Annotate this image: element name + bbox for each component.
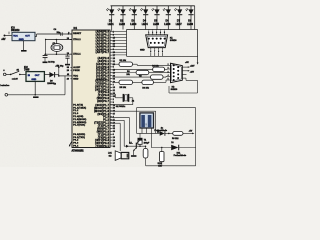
connector K1 pin dots [148, 38, 150, 40]
power terminal +5V (IC3 supply) [4, 35, 6, 37]
svg-text:(AD5)P0.5: (AD5)P0.5 [96, 45, 110, 48]
svg-text:(T1)P3.5: (T1)P3.5 [98, 95, 110, 97]
ground (supply rail) [33, 96, 39, 98]
ground (C1) [65, 64, 70, 66]
svg-text:3: 3 [156, 32, 157, 34]
ground (T1 emitter) [131, 155, 137, 157]
svg-text:100µF: 100µF [144, 142, 150, 144]
loudspeaker LS1 [115, 151, 121, 161]
svg-text:P3.0(RXD): P3.0(RXD) [73, 134, 85, 136]
svg-text:40: 40 [67, 73, 69, 76]
svg-text:C3: C3 [54, 84, 56, 86]
svg-text:8: 8 [158, 51, 159, 53]
svg-text:XTAL2: XTAL2 [73, 38, 81, 41]
diode D9 [49, 72, 54, 77]
resistor R6 [142, 80, 154, 84]
wire K2 right +12V [182, 66, 188, 68]
svg-text:AT89S8252: AT89S8252 [72, 150, 85, 153]
wire IC2 GND down [34, 81, 36, 94]
svg-text:(MISO)P1.6: (MISO)P1.6 [94, 108, 110, 110]
svg-text:13: 13 [113, 137, 115, 139]
svg-text:33: 33 [113, 78, 115, 80]
svg-text:R8 2k2: R8 2k2 [172, 138, 179, 140]
svg-text:(INT1)P3.3: (INT1)P3.3 [95, 89, 110, 91]
svg-text:P3.2: P3.2 [73, 140, 79, 142]
svg-text:1: 1 [168, 64, 169, 66]
svg-text:(A11)P2.3: (A11)P2.3 [96, 66, 109, 69]
svg-text:(A12)P2.4: (A12)P2.4 [96, 69, 110, 72]
battery terminal plus [3, 73, 6, 76]
svg-text:XTAL1: XTAL1 [73, 53, 81, 56]
capacitor C4 on reset line [60, 32, 62, 36]
svg-text:GND: GND [73, 78, 79, 80]
svg-text:(T0)P3.4: (T0)P3.4 [98, 91, 110, 94]
wire right drop to D11 line [195, 108, 197, 148]
svg-text:R6 10k: R6 10k [142, 87, 149, 89]
svg-text:(RXD)P3.0: (RXD)P3.0 [95, 81, 109, 83]
wire R6 to K2 [153, 81, 166, 83]
wire R2 to K2 [163, 76, 166, 78]
svg-text:P1.7(SCK): P1.7(SCK) [73, 125, 85, 127]
svg-text:(T2EX)P1.1: (T2EX)P1.1 [94, 123, 109, 125]
svg-text:R5 10k: R5 10k [120, 87, 127, 89]
svg-text:(INT0)P3.2: (INT0)P3.2 [95, 86, 110, 88]
crystal X2 [123, 94, 125, 102]
svg-text:(AD6)P0.6: (AD6)P0.6 [96, 48, 110, 51]
svg-text:LED4: LED4 [142, 23, 149, 26]
wire X2 top [110, 93, 116, 95]
svg-text:(AD7)P0.7: (AD7)P0.7 [96, 51, 110, 54]
svg-text:(WR)P3.6: (WR)P3.6 [97, 131, 110, 133]
svg-text:LED3: LED3 [130, 24, 137, 26]
switch S1 [10, 74, 12, 76]
connector K1 top pins [148, 30, 150, 35]
wire R1 to K2 [133, 63, 138, 65]
wire P3 pin to speaker [110, 122, 120, 124]
svg-text:batteries: batteries [0, 84, 10, 87]
svg-text:(TXD)P3.1: (TXD)P3.1 [96, 146, 110, 148]
svg-text:P1.4(SS): P1.4(SS) [73, 115, 83, 118]
svg-text:-12V: -12V [190, 72, 195, 74]
connector K2 pin dots [173, 64, 175, 66]
wire minus rail [8, 94, 65, 96]
svg-text:1: 1 [148, 32, 149, 34]
svg-text:SUBD9: SUBD9 [170, 40, 177, 42]
wire bus top (K1 box top) [127, 29, 198, 31]
connector K1 bottom pins [150, 48, 152, 57]
wire contact line [150, 133, 152, 147]
svg-text:18: 18 [67, 38, 69, 40]
svg-text:16: 16 [113, 105, 115, 107]
svg-text:2: 2 [113, 99, 114, 101]
resistor R5 [119, 80, 133, 84]
junction crystal bottom [56, 53, 58, 55]
wire P2.4 to R5 [112, 81, 119, 83]
svg-text:P1.6(MISO): P1.6(MISO) [73, 122, 86, 124]
IC1 left pin stubs [70, 33, 72, 35]
svg-text:(AD2)P0.2: (AD2)P0.2 [96, 37, 110, 40]
connector K1 DB9 shell [146, 35, 168, 48]
svg-text:P3.4: P3.4 [73, 145, 79, 148]
svg-text:6: 6 [113, 134, 114, 136]
voltage regulator IC2 7805 [26, 72, 44, 82]
svg-text:ALE/P: ALE/P [73, 66, 81, 69]
wire P2.1 to R4 [112, 68, 152, 70]
svg-text:7: 7 [113, 84, 114, 86]
wire P2.2 to R3 [112, 72, 136, 74]
wire bus to relay region [137, 107, 196, 109]
resistor R10 [160, 152, 164, 162]
svg-text:4: 4 [160, 31, 161, 34]
svg-text:9: 9 [162, 51, 163, 53]
svg-text:(WR)P3.6: (WR)P3.6 [97, 98, 110, 100]
svg-text:9: 9 [68, 33, 69, 35]
wire IC3 OUT to RESET [35, 36, 37, 38]
capacitor C2 [44, 54, 46, 55]
svg-text:39: 39 [113, 131, 115, 133]
svg-text:P1.5(MOSI): P1.5(MOSI) [73, 119, 86, 121]
connector K2 DB9 shell [171, 63, 183, 82]
svg-text:35: 35 [113, 96, 115, 98]
resistor R4 [153, 67, 165, 72]
svg-text:(A13)P2.5: (A13)P2.5 [96, 72, 110, 75]
wire XTAL1 line [44, 53, 72, 55]
svg-text:(T2)P1.0: (T2)P1.0 [98, 126, 110, 128]
svg-text:VCC: VCC [13, 36, 18, 38]
wire XTAL2 line [45, 39, 72, 41]
svg-text:OUT: OUT [35, 75, 40, 77]
svg-text:R4 10k: R4 10k [152, 64, 159, 67]
wire module right vertical [155, 111, 157, 133]
wire R7 bottom [145, 158, 147, 166]
wire P3 pin to T1 base [110, 119, 124, 121]
wire bus right vertical +5V [197, 30, 199, 64]
diode D11 [171, 145, 178, 151]
battery terminal minus [5, 94, 8, 97]
svg-text:20: 20 [113, 140, 115, 142]
svg-text:19: 19 [67, 53, 69, 55]
capacitor C1 [67, 54, 69, 56]
LED D2 [122, 6, 124, 10]
ground (C2) [43, 61, 48, 63]
wire MCU to module box top [110, 110, 156, 112]
svg-text:(T0)P3.4: (T0)P3.4 [98, 136, 110, 139]
svg-text:C2 33p: C2 33p [48, 61, 55, 63]
wire IC2 out [44, 73, 49, 75]
svg-text:27: 27 [113, 143, 115, 145]
svg-text:(A8)P2.0: (A8)P2.0 [98, 57, 110, 60]
resistor R6 [173, 132, 183, 136]
wire rail right end down [194, 6, 196, 30]
transistor T1 [135, 143, 137, 149]
IR module OP1 [140, 113, 154, 128]
svg-text:2: 2 [152, 32, 153, 34]
svg-text:9: 9 [113, 102, 114, 104]
svg-text:(AD3)P0.3: (AD3)P0.3 [96, 39, 110, 42]
svg-text:(AD0)P0.0: (AD0)P0.0 [96, 31, 110, 34]
wire XTAL2 branch down [45, 40, 47, 55]
svg-text:+5V: +5V [185, 62, 189, 64]
svg-text:P1.2: P1.2 [73, 110, 79, 112]
wire R10 top [161, 148, 163, 152]
svg-text:(INT1)P3.3: (INT1)P3.3 [95, 140, 110, 142]
svg-text:OUT: OUT [25, 36, 30, 38]
svg-text:P1.2: P1.2 [103, 120, 109, 122]
svg-text:VCC: VCC [73, 76, 78, 78]
wire VCC branch down [64, 76, 66, 95]
svg-text:(A14)P2.6: (A14)P2.6 [96, 75, 110, 78]
svg-text:(RD)P3.7: (RD)P3.7 [97, 129, 109, 131]
svg-text:25: 25 [113, 125, 115, 127]
crystal Q1 [56, 40, 58, 44]
wire K2 right -12V [182, 70, 188, 72]
svg-text:(SCK)P1.7: (SCK)P1.7 [95, 105, 109, 107]
wire P2.0 to R1 [112, 63, 119, 65]
svg-text:(A9)P2.1: (A9)P2.1 [98, 60, 110, 63]
svg-text:23: 23 [113, 108, 115, 110]
svg-text:6: 6 [150, 51, 151, 53]
svg-text:+5V: +5V [1, 38, 6, 41]
junction reset line [68, 33, 69, 34]
svg-text:5: 5 [164, 32, 165, 34]
resistor R2 [151, 75, 164, 79]
LED D5 [156, 6, 158, 10]
svg-text:DS1813: DS1813 [11, 30, 20, 32]
svg-text:+12V: +12V [190, 66, 195, 68]
svg-text:(T1)P3.5: (T1)P3.5 [98, 134, 110, 136]
svg-text:LED5: LED5 [153, 24, 160, 26]
wire P2.3 to R2 [112, 76, 150, 78]
svg-text:LED6: LED6 [164, 24, 171, 26]
junction crystal top [56, 39, 58, 41]
svg-text:R1 10k: R1 10k [120, 60, 127, 62]
svg-text:32: 32 [113, 128, 115, 130]
wire R3 to K2 [149, 72, 160, 74]
wire VCC to IC1 [59, 75, 72, 77]
LED D6 [167, 6, 169, 10]
ground (IC3) [21, 50, 27, 52]
svg-text:P1.1(T2EX): P1.1(T2EX) [73, 107, 86, 109]
junction speaker wire [119, 150, 121, 152]
svg-text:19: 19 [113, 73, 115, 75]
microcontroller IC1 AT89S8252 body [72, 30, 110, 148]
LED D1 [111, 6, 113, 10]
svg-text:P1.0(T2): P1.0(T2) [73, 104, 83, 106]
svg-text:7805: 7805 [24, 69, 30, 72]
svg-text:GND: GND [31, 79, 36, 81]
wire terminal to switch [6, 73, 10, 75]
wires P0 pins to bus [112, 31, 126, 33]
svg-text:17: 17 [113, 55, 115, 57]
svg-text:P1.3: P1.3 [103, 117, 109, 119]
wire R7 top [145, 146, 147, 148]
svg-text:2: 2 [168, 68, 169, 70]
wire P3 pin to relay node [110, 116, 129, 118]
wire module left vertical [136, 108, 138, 134]
svg-text:LED2: LED2 [119, 24, 126, 26]
svg-text:LED8: LED8 [187, 24, 194, 26]
svg-text:(A10)P2.2: (A10)P2.2 [96, 63, 110, 66]
resistor R3 [136, 70, 149, 74]
svg-text:12: 12 [113, 70, 115, 72]
wire bus left vertical [126, 30, 128, 57]
svg-text:3: 3 [168, 71, 169, 73]
svg-text:29: 29 [67, 70, 69, 72]
svg-text:(TXD)P3.1: (TXD)P3.1 [96, 83, 110, 85]
junction D10 cathode [168, 133, 170, 135]
capacitor C7 [139, 133, 141, 138]
wires serial pins to bus [112, 54, 126, 56]
svg-text:31: 31 [113, 61, 115, 63]
svg-text:21: 21 [113, 90, 115, 92]
svg-text:P1.3: P1.3 [73, 113, 79, 115]
svg-text:37: 37 [113, 114, 115, 116]
svg-text:20: 20 [67, 79, 69, 81]
wire to D10 [137, 132, 160, 134]
LED D8 [190, 6, 192, 10]
svg-text:P3.1(TXD): P3.1(TXD) [73, 137, 85, 139]
svg-text:5: 5 [113, 67, 114, 69]
svg-text:OP1: OP1 [146, 123, 148, 127]
svg-text:(INT0)P3.2: (INT0)P3.2 [95, 143, 110, 145]
LED D4 [145, 6, 147, 10]
svg-text:(RD)P3.7: (RD)P3.7 [97, 101, 109, 103]
svg-text:LED7: LED7 [176, 24, 183, 26]
wire R6 to +5V [183, 132, 193, 134]
svg-text:RESET: RESET [73, 33, 82, 35]
arrow on base line [126, 145, 129, 148]
wire R5 to R6 [133, 81, 142, 83]
LED D3 [133, 6, 135, 10]
svg-text:Freilaufdiode: Freilaufdiode [174, 155, 187, 157]
wire K2 right pin3 [182, 73, 186, 75]
IC3 reset supervisor DS1813 [12, 32, 35, 40]
svg-text:SUBD9: SUBD9 [171, 89, 178, 91]
IC1 bottom-left pin arrow [70, 142, 72, 146]
resistor R1 [119, 62, 133, 66]
wire K2 bottom loop [182, 77, 186, 79]
svg-text:30: 30 [67, 67, 69, 69]
svg-text:32.768kHz: 32.768kHz [116, 106, 125, 108]
svg-text:P3.3: P3.3 [73, 143, 79, 145]
svg-text:LED1: LED1 [108, 24, 115, 26]
LED D7 [179, 6, 181, 10]
svg-text:(AD1)P0.1: (AD1)P0.1 [96, 34, 110, 37]
svg-text:GND: GND [140, 50, 145, 52]
svg-text:7: 7 [154, 51, 155, 53]
wire IC3 GND down [23, 41, 25, 51]
svg-text:40: 40 [113, 80, 115, 83]
wire T1 emitter down [133, 150, 135, 155]
svg-text:8Ω: 8Ω [109, 155, 112, 157]
wire X2 bottom [129, 97, 133, 99]
svg-text:(AD4)P0.4: (AD4)P0.4 [96, 42, 110, 45]
IC1 right pin stubs and numbers [110, 31, 112, 33]
junction VCC wire [58, 75, 60, 77]
diode D10 [160, 131, 165, 136]
svg-text:PSEN: PSEN [73, 70, 80, 72]
svg-text:(MOSI)P1.5: (MOSI)P1.5 [94, 111, 110, 113]
wire LED supply rail [111, 5, 195, 7]
wire R4 to K2 [165, 68, 168, 70]
svg-text:on/off: on/off [12, 78, 18, 80]
module pins [141, 128, 143, 133]
wire bus bottom (K1 box bottom) [127, 55, 198, 57]
svg-text:X2: X2 [132, 101, 134, 103]
wire bottom loop [161, 162, 163, 166]
svg-text:5: 5 [168, 79, 169, 81]
resistor R7 [143, 149, 148, 159]
svg-text:(SS)P1.4: (SS)P1.4 [97, 113, 109, 116]
